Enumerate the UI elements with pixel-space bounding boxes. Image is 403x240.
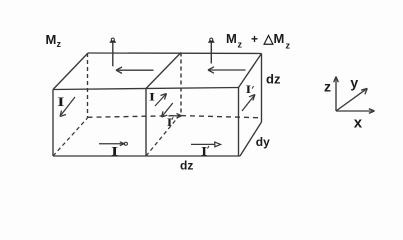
label Mz + deltaMz (right) xyxy=(226,31,291,51)
svg-text:x: x xyxy=(354,115,363,132)
left cube top-left depth diagonal xyxy=(53,53,88,90)
prime tick of I' right face xyxy=(252,86,253,89)
hidden back-bottom edge right segment (dashed) xyxy=(181,116,261,118)
left cube front-left vertical edge xyxy=(52,90,54,157)
middle divider top depth diagonal xyxy=(146,53,181,89)
front-bottom edge (both cubes) xyxy=(53,155,240,157)
current loop arrow I' right (right cube bottom) xyxy=(191,142,221,147)
svg-text:M: M xyxy=(274,31,285,46)
coordinate axes: z axis xyxy=(334,77,339,112)
svg-text:I: I xyxy=(111,143,118,158)
right cube bottom-right depth diagonal xyxy=(240,122,262,156)
svg-text:I: I xyxy=(167,115,173,129)
coordinate axes: y axis xyxy=(336,88,367,111)
svg-text:z: z xyxy=(324,79,331,95)
svg-text:z: z xyxy=(286,41,291,51)
prime tick of I' near divider xyxy=(172,117,173,120)
svg-text:I: I xyxy=(149,89,155,103)
middle divider vertical edge xyxy=(145,89,147,157)
current loop arrow I up-right (right cube, near divider) xyxy=(155,94,167,107)
svg-text:I: I xyxy=(201,144,207,159)
svg-text:I: I xyxy=(57,94,64,109)
hidden back-bottom edge left segment (dashed) xyxy=(88,116,182,118)
coordinate axes: x axis xyxy=(336,109,375,114)
svg-text:z: z xyxy=(238,40,243,50)
top-face left arrow (right cube) xyxy=(208,67,246,73)
svg-text:I: I xyxy=(246,82,252,96)
small right arrow on hidden edge (near divider) xyxy=(173,114,182,119)
Mz up arrow (left cube) xyxy=(109,38,116,67)
label Mz (left) xyxy=(46,32,62,49)
current loop arrow I' up-right (right cube right face) xyxy=(242,95,255,112)
hidden back-left vertical edge (dashed) xyxy=(87,53,89,118)
right cube back-right vertical edge xyxy=(261,54,263,123)
hidden middle bottom depth diagonal (dashed) xyxy=(146,116,179,156)
svg-text:dz: dz xyxy=(266,72,281,87)
current loop arrow I right (left cube bottom) xyxy=(99,142,127,146)
svg-text:M: M xyxy=(226,31,237,46)
svg-text:dz: dz xyxy=(180,159,193,173)
back-top edge (both cubes) xyxy=(88,52,262,55)
right cube top-right depth diagonal xyxy=(239,54,262,88)
svg-text:M: M xyxy=(46,32,57,47)
right cube front-right vertical edge xyxy=(238,88,240,157)
svg-text:dy: dy xyxy=(256,135,270,149)
svg-text:z: z xyxy=(57,39,62,49)
front-top edge (both cubes) xyxy=(53,88,239,90)
hidden middle back vertical edge (dashed) xyxy=(180,53,182,116)
Mz up arrow (right cube) xyxy=(208,38,215,64)
svg-text:y: y xyxy=(350,75,358,91)
prime tick of I' bottom xyxy=(208,146,209,149)
top-face left arrow (left cube) xyxy=(116,67,154,73)
hidden bottom-left depth diagonal (dashed) xyxy=(53,118,88,156)
current loop arrow I down-left (left cube front face) xyxy=(60,97,75,117)
current loop arrow I' down-left (right cube, near divider) xyxy=(162,103,173,117)
svg-text:+: + xyxy=(251,32,258,46)
